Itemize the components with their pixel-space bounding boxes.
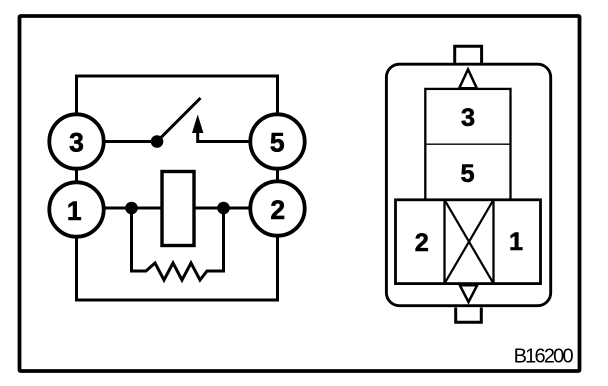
- switch S1 pivot dot: [151, 135, 164, 148]
- resistor R1: [132, 208, 224, 280]
- svg-text:B16200: B16200: [514, 345, 574, 367]
- switch S1 arm: [157, 98, 201, 142]
- wire: middle wire pin1 to pin2: [77, 207, 278, 210]
- cavity divider left: [443, 200, 445, 284]
- node junction dot left: [125, 202, 138, 215]
- connector bottom tab: [456, 308, 482, 323]
- connector key triangle down: [460, 285, 477, 302]
- pin 1 circle: [49, 182, 103, 236]
- svg-text:3: 3: [461, 104, 475, 132]
- coil L1: [162, 172, 194, 246]
- cavity divider 3/5: [425, 143, 510, 145]
- svg-text:2: 2: [270, 195, 285, 225]
- svg-text:3: 3: [69, 128, 84, 158]
- svg-text:1: 1: [509, 228, 523, 256]
- cavity divider right: [492, 200, 494, 284]
- wire: contact to pin5: [198, 131, 278, 142]
- connector top tab: [455, 46, 482, 63]
- pin 3 circle: [49, 114, 103, 168]
- blocked cavity X mark: [445, 200, 494, 284]
- connector key triangle up: [459, 69, 477, 88]
- connector body outline: [386, 64, 550, 306]
- pin 5 circle: [250, 114, 304, 168]
- svg-text:1: 1: [67, 196, 82, 226]
- wire: switch wire pin3 to pivot: [77, 140, 158, 143]
- cavity box lower 2/X/1: [396, 200, 541, 284]
- switch S1 contact arrow: [192, 115, 203, 134]
- svg-text:5: 5: [270, 128, 285, 158]
- svg-text:2: 2: [415, 229, 429, 257]
- cavity box 3/5: [425, 89, 510, 200]
- wire: relay outer loop box: [77, 76, 278, 300]
- svg-text:5: 5: [460, 160, 474, 188]
- node junction dot right: [217, 202, 230, 215]
- pin 2 circle: [250, 181, 304, 235]
